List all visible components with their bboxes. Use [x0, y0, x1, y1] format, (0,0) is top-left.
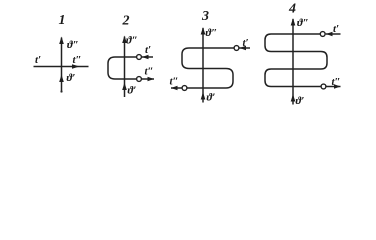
- wire: scheme 3 vertical gas flow line: [202, 28, 204, 103]
- arrowhead right on scheme 1 horizontal: [72, 64, 80, 69]
- svg-text:ϑ′: ϑ′: [128, 85, 137, 97]
- svg-text:t′: t′: [333, 23, 339, 35]
- svg-text:t″: t″: [145, 66, 154, 78]
- ink dot at bottom end of scheme 1 vertical: [60, 90, 62, 92]
- outlet stub t-doubleprime scheme 4: [327, 86, 341, 88]
- arrowhead left on scheme 2 inlet: [142, 55, 149, 59]
- svg-text:2: 2: [122, 14, 130, 29]
- inlet stub t-prime scheme 4: [326, 33, 341, 35]
- arrowhead up at top of scheme 3 vertical: [201, 27, 206, 35]
- svg-text:3: 3: [201, 9, 209, 24]
- arrowhead up below cross of scheme 1: [59, 75, 64, 83]
- arrowhead up at top of scheme 1 vertical: [59, 37, 64, 45]
- port circle top right scheme 3: [234, 46, 239, 51]
- svg-text:t″: t″: [332, 76, 341, 88]
- inlet stub t-prime scheme 3: [240, 47, 251, 49]
- svg-text:t′: t′: [243, 37, 249, 49]
- pipe coil scheme 3 (three-pass serpentine): [182, 48, 234, 88]
- arrowhead left on scheme 3 inlet: [240, 46, 247, 50]
- arrowhead right on scheme 2 outlet: [148, 77, 155, 81]
- svg-text:1: 1: [59, 13, 66, 28]
- svg-text:ϑ′: ϑ′: [67, 72, 76, 84]
- wire: scheme 1 horizontal water flow line: [34, 66, 89, 68]
- svg-text:t″: t″: [73, 54, 82, 66]
- svg-text:ϑ′: ϑ′: [207, 92, 216, 104]
- arrowhead left on scheme 3 outlet: [171, 86, 178, 90]
- port circle top right scheme 4: [320, 32, 325, 37]
- arrowhead up below coil of scheme 3: [201, 92, 206, 100]
- port circle top right scheme 2: [137, 55, 142, 60]
- port circle bottom left scheme 3: [182, 86, 187, 91]
- inlet stub t-prime scheme 2: [142, 56, 153, 58]
- wire: scheme 4 vertical gas flow line: [292, 19, 294, 105]
- outlet stub t-doubleprime scheme 3: [171, 87, 182, 89]
- svg-text:4: 4: [288, 2, 296, 17]
- svg-text:ϑ″: ϑ″: [126, 35, 138, 47]
- svg-text:ϑ″: ϑ″: [206, 27, 218, 39]
- outlet stub t-doubleprime scheme 2: [142, 78, 154, 80]
- arrowhead up at top of scheme 2 vertical: [122, 36, 127, 44]
- svg-text:t′: t′: [145, 44, 151, 56]
- pipe coil scheme 4 (four-pass serpentine): [265, 34, 327, 87]
- arrowhead up below coil of scheme 4: [291, 94, 296, 102]
- svg-text:ϑ″: ϑ″: [67, 39, 79, 51]
- arrowhead up at top of scheme 4 vertical: [291, 18, 296, 26]
- wire: scheme 2 vertical gas flow line: [124, 37, 126, 98]
- arrowhead left on scheme 4 inlet: [326, 32, 333, 36]
- svg-text:ϑ′: ϑ′: [296, 95, 305, 107]
- svg-text:ϑ″: ϑ″: [297, 17, 309, 29]
- arrowhead right on scheme 4 outlet: [334, 84, 341, 88]
- svg-text:t″: t″: [170, 76, 179, 88]
- arrowhead up below coil of scheme 2: [122, 83, 127, 91]
- port circle bottom right scheme 2: [137, 77, 142, 82]
- pipe coil scheme 2 (two-pass U tube): [108, 57, 137, 79]
- port circle bottom right scheme 4: [321, 84, 326, 89]
- wire: scheme 1 vertical gas flow line: [61, 38, 63, 93]
- svg-text:t′: t′: [35, 54, 41, 66]
